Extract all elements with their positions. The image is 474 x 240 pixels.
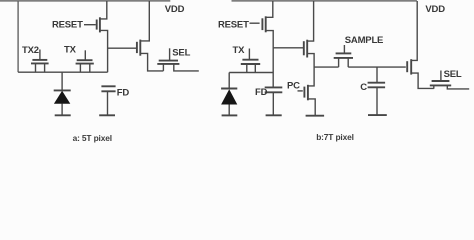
- svg-text:SEL: SEL: [444, 69, 462, 80]
- svg-text:a: 5T pixel: a: 5T pixel: [73, 133, 112, 143]
- svg-text:TX: TX: [64, 45, 77, 56]
- svg-text:TX: TX: [233, 45, 246, 56]
- svg-text:FD: FD: [255, 87, 268, 98]
- svg-text:RESET: RESET: [218, 19, 249, 30]
- svg-text:PC: PC: [287, 81, 300, 92]
- svg-text:SAMPLE: SAMPLE: [345, 35, 383, 46]
- svg-text:C: C: [360, 82, 367, 93]
- svg-text:b:7T pixel: b:7T pixel: [316, 132, 354, 142]
- svg-text:VDD: VDD: [165, 4, 185, 15]
- svg-text:FD: FD: [117, 87, 130, 98]
- svg-text:RESET: RESET: [52, 19, 83, 30]
- svg-text:SEL: SEL: [172, 47, 190, 58]
- svg-text:TX2: TX2: [22, 45, 39, 56]
- svg-text:VDD: VDD: [425, 4, 445, 15]
